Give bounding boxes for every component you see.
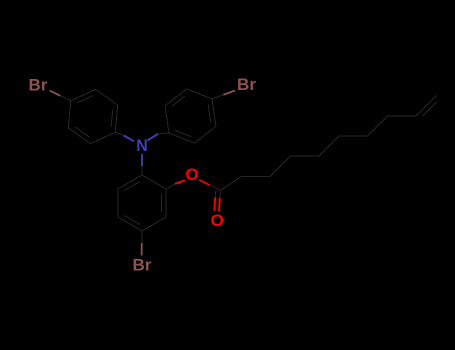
bond ring C to ester O (oxygen half) bbox=[175, 180, 185, 184]
chain bond C6-C7 bbox=[339, 135, 368, 137]
bond Br2 to ring B (bromine half) bbox=[224, 91, 236, 95]
ringA bond 1 bbox=[68, 128, 90, 144]
ringB inner double 3 bbox=[208, 105, 211, 122]
chain bond C2-C3 bbox=[242, 175, 271, 177]
chain bond C1-C2 bbox=[221, 176, 242, 190]
bond N to ring C (nitrogen half) bbox=[141, 154, 143, 166]
bond N to ring C (carbon half) bbox=[141, 166, 143, 175]
bond Br3 to ring C (carbon half) bbox=[141, 231, 143, 243]
ringB bond 3 bbox=[212, 99, 216, 126]
ringA inner double 1 bbox=[75, 127, 89, 137]
ringA inner double 3 bbox=[77, 96, 93, 103]
svg-text:N: N bbox=[136, 136, 148, 155]
ringA bond 2 bbox=[68, 101, 71, 128]
ringA bond 4 bbox=[96, 89, 118, 105]
svg-text:O: O bbox=[211, 211, 224, 230]
ringA inner double 5 bbox=[111, 110, 113, 127]
C=O double bond line 1 (carbon half) bbox=[219, 191, 222, 199]
chain bond C4-C5 bbox=[290, 155, 319, 157]
ringA bond 5 bbox=[115, 105, 118, 132]
chain bond C8-C9 bbox=[388, 115, 417, 117]
bond ester O to carbonyl C (carbon half) bbox=[209, 185, 220, 191]
ringA bond 3 bbox=[71, 89, 96, 100]
ringC inner double 1 bbox=[161, 194, 163, 212]
bond N to ring A (nitrogen half) bbox=[124, 136, 134, 142]
ringB bond 1 bbox=[165, 89, 187, 106]
ring C (bottom bromophenyl with ester) bbox=[118, 175, 166, 231]
bond N to ring A (carbon half) bbox=[115, 132, 124, 135]
C=O double bond line 2 (carbon half) bbox=[214, 190, 217, 198]
chain bond C7-C8 bbox=[368, 116, 388, 136]
ring A (top-left bromophenyl) bbox=[68, 89, 117, 143]
ringB inner double 5 bbox=[175, 131, 191, 138]
ringC inner double 5 bbox=[124, 182, 139, 191]
ringC bond 5 bbox=[118, 175, 142, 189]
bond Br2 to ring B (carbon half) bbox=[212, 95, 224, 99]
ringB inner double 1 bbox=[172, 96, 186, 107]
ringA bond 0 bbox=[91, 132, 116, 143]
ringC bond 4 bbox=[117, 189, 119, 217]
chain bond C9-C10 bbox=[416, 96, 436, 116]
ringC inner double 3 bbox=[124, 216, 139, 225]
svg-text:O: O bbox=[185, 165, 198, 184]
terminal C=C second line bbox=[422, 102, 436, 116]
ringB bond 2 bbox=[187, 89, 213, 99]
bond Br1 to ring A (carbon half) bbox=[60, 96, 71, 101]
ringC bond 3 bbox=[118, 217, 142, 231]
C=O double bond line 2 (oxygen half) bbox=[214, 198, 215, 211]
ringC bond 2 bbox=[142, 217, 166, 231]
chain bond C3-C4 bbox=[270, 156, 290, 176]
ringC bond 1 bbox=[165, 189, 167, 217]
ringB bond 0 bbox=[165, 106, 169, 133]
bond Br1 to ring A (bromine half) bbox=[50, 91, 61, 96]
bond N to ring B (nitrogen half) bbox=[147, 134, 158, 141]
ringB bond 4 bbox=[195, 126, 217, 143]
svg-text:Br: Br bbox=[133, 256, 152, 275]
bond Br3 to ring C (bromine half) bbox=[141, 243, 143, 255]
bond ester O to carbonyl C (oxygen half) bbox=[199, 180, 209, 185]
svg-text:Br: Br bbox=[237, 75, 256, 94]
chain bond C5-C6 bbox=[319, 136, 339, 156]
ringB bond 5 bbox=[169, 133, 195, 143]
bond ring C to ester O (carbon half) bbox=[166, 184, 175, 189]
ringC bond 0 bbox=[142, 175, 166, 189]
svg-text:Br: Br bbox=[29, 76, 48, 95]
bond N to ring B (carbon half) bbox=[158, 132, 169, 135]
alkyl chain (decenoate tail) bbox=[221, 96, 437, 191]
C=O double bond line 1 (oxygen half) bbox=[219, 198, 220, 211]
ring B (top-middle bromophenyl) bbox=[165, 89, 216, 143]
